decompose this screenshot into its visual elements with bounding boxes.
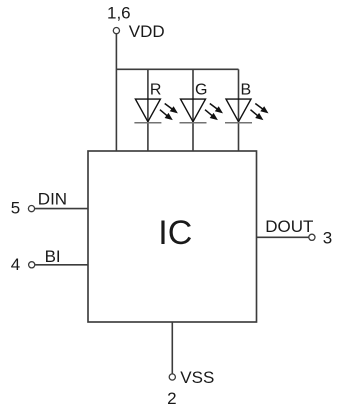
LED G cathode bar <box>180 122 207 124</box>
svg-text:1,6: 1,6 <box>107 4 131 23</box>
svg-text:BI: BI <box>45 247 61 266</box>
wire VDD bus horizontal <box>116 68 238 70</box>
VDD terminal circle <box>113 28 119 34</box>
DIN terminal circle <box>28 206 34 212</box>
LED G emission arrow 2 <box>205 110 218 120</box>
svg-text:4: 4 <box>11 255 20 274</box>
svg-text:IC: IC <box>158 214 192 252</box>
LED B cathode bar <box>225 122 252 124</box>
wire DIN <box>35 208 88 210</box>
svg-text:G: G <box>195 81 207 98</box>
LED B emission arrow 2 <box>251 110 264 120</box>
wire LED branch R <box>147 69 149 151</box>
LED G diode <box>181 99 206 122</box>
svg-text:DIN: DIN <box>38 190 67 209</box>
wire BI <box>35 264 88 266</box>
LED R emission arrow 1 <box>165 104 178 114</box>
wire LED branch B <box>238 69 240 151</box>
VSS terminal circle <box>169 374 175 380</box>
wire LED branch G <box>192 69 194 151</box>
BI terminal circle <box>29 262 35 268</box>
svg-text:5: 5 <box>11 199 20 218</box>
svg-text:VDD: VDD <box>129 22 165 41</box>
svg-text:2: 2 <box>167 389 176 408</box>
LED B emission arrow 1 <box>255 104 268 114</box>
LED R emission arrow 2 <box>160 110 173 120</box>
svg-text:3: 3 <box>323 228 332 247</box>
LED G emission arrow 1 <box>210 104 223 114</box>
DOUT terminal circle <box>309 234 315 240</box>
wire VSS <box>171 322 173 374</box>
svg-text:VSS: VSS <box>180 368 214 387</box>
svg-text:B: B <box>241 81 252 98</box>
LED B diode <box>226 99 251 122</box>
LED R diode <box>135 99 160 122</box>
wire VDD vertical <box>115 34 117 151</box>
IC box U1 <box>88 151 257 322</box>
svg-text:DOUT: DOUT <box>265 217 313 236</box>
svg-text:R: R <box>150 81 162 98</box>
wire DOUT <box>257 236 309 238</box>
LED R cathode bar <box>134 122 161 124</box>
